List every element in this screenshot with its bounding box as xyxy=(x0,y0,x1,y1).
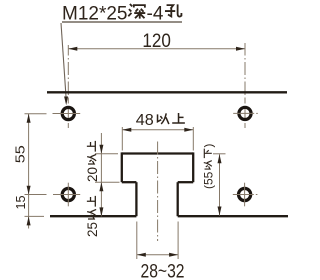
leader underline xyxy=(62,21,182,23)
slide bottom edge line xyxy=(47,91,287,93)
svg-text:48: 48 xyxy=(136,112,154,129)
28 dim left extension xyxy=(136,222,138,260)
extension line bottom hole row xyxy=(25,194,47,196)
hole bottom-left M12 xyxy=(62,188,74,200)
28 dim left arrow xyxy=(137,253,146,257)
48 dim left extension xyxy=(121,127,123,151)
arrow up to step xyxy=(99,182,103,191)
dimension 48以上 line xyxy=(122,129,193,131)
T-slot right throat wall xyxy=(177,182,179,216)
leader line to hole xyxy=(61,23,66,97)
hole top-right M12 xyxy=(239,107,251,119)
arrow down to slot top xyxy=(99,145,103,154)
arrow up at hole row top xyxy=(27,114,31,123)
dimension 120 right arrow xyxy=(236,47,245,51)
crosshair top-right hole xyxy=(233,112,254,114)
extension line bottom face xyxy=(25,215,45,217)
dimension (55以下) line xyxy=(219,154,221,215)
crosshair bottom-left hole xyxy=(53,194,80,196)
T-slot right flange wall xyxy=(192,152,194,182)
28 dim right arrow xyxy=(169,253,178,257)
crosshair top-left hole xyxy=(53,113,81,115)
svg-text:28~32: 28~32 xyxy=(141,260,185,280)
T-slot left step xyxy=(122,181,137,183)
arrow down to bottom face xyxy=(99,207,103,216)
extension line slot top level xyxy=(95,153,118,155)
dimension 120 left arrow xyxy=(68,47,77,51)
hole bottom-right M12 xyxy=(239,188,251,200)
dimension text (55以下) rotated xyxy=(201,144,215,189)
dimension text 48以上 xyxy=(136,112,185,129)
svg-text:20: 20 xyxy=(85,167,100,182)
crosshair bottom-right hole xyxy=(233,194,254,196)
arrow down at bottom face xyxy=(218,207,222,216)
arrow up at bottom face (from below) xyxy=(27,216,31,225)
slot vertical centerline xyxy=(157,142,159,155)
extension line step level xyxy=(95,181,120,183)
T-slot top edge xyxy=(122,152,193,154)
28 dim right extension xyxy=(177,222,179,260)
dimension 120 line xyxy=(68,48,245,50)
hole top-left M12 xyxy=(62,107,74,119)
svg-text:M12*25: M12*25 xyxy=(62,3,128,24)
svg-text:): ) xyxy=(201,144,215,148)
svg-text:-4: -4 xyxy=(147,3,164,24)
svg-text:(55: (55 xyxy=(201,171,215,189)
T-slot right step xyxy=(178,181,194,183)
bottom face line left xyxy=(50,215,136,217)
leader arrowhead xyxy=(64,97,68,106)
arrow up at slot top xyxy=(218,154,222,163)
T-slot left throat wall xyxy=(135,182,137,216)
extension line top hole row xyxy=(25,113,47,115)
dimension text 20以上 (rotated) xyxy=(85,141,100,182)
svg-text:55: 55 xyxy=(13,145,28,163)
dimension text 25以上 (rotated) xyxy=(85,196,100,237)
extension line slot top right xyxy=(213,153,226,155)
centerline left hole column xyxy=(67,45,69,56)
T-slot left flange wall xyxy=(121,152,123,182)
note text M12*25深-4孔 xyxy=(62,3,181,24)
arrow down at bottom hole row xyxy=(27,186,31,195)
left dimension column line 55/15 xyxy=(28,114,30,229)
dimension 20以上/25以上 line xyxy=(100,133,102,216)
48 dim right arrow xyxy=(184,128,193,132)
48 dim right extension xyxy=(192,127,194,151)
dimension 28~32 line xyxy=(137,254,178,256)
svg-text:15: 15 xyxy=(13,196,28,210)
svg-text:25: 25 xyxy=(85,222,100,237)
48 dim left arrow xyxy=(122,128,131,132)
bottom face line right xyxy=(178,215,288,217)
centerline right hole column xyxy=(244,43,246,56)
svg-text:120: 120 xyxy=(142,31,171,52)
